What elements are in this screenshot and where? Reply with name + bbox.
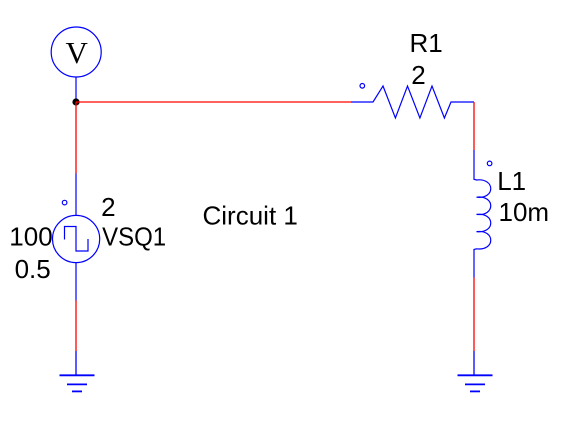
svg-text:L1: L1: [497, 166, 526, 196]
source VSQ1: [53, 174, 100, 301]
voltmeter V: [51, 27, 101, 102]
svg-text:0.5: 0.5: [15, 254, 51, 284]
wire: [75, 102, 77, 174]
svg-text:100: 100: [9, 222, 52, 252]
inductor L1: [474, 150, 492, 278]
wire: [473, 278, 475, 352]
ground (left): [60, 351, 95, 391]
wire: [75, 301, 77, 352]
ground (right): [458, 351, 493, 391]
node junction: [72, 98, 79, 105]
svg-text:V: V: [66, 35, 89, 70]
wire: [76, 101, 351, 103]
svg-text:10m: 10m: [499, 197, 550, 227]
svg-text:R1: R1: [410, 28, 443, 58]
wire: [473, 102, 475, 150]
svg-text:2: 2: [101, 192, 115, 222]
svg-text:2: 2: [411, 60, 425, 90]
svg-text:Circuit 1: Circuit 1: [203, 200, 298, 230]
resistor R1: [351, 84, 474, 119]
svg-text:VSQ1: VSQ1: [102, 222, 166, 252]
